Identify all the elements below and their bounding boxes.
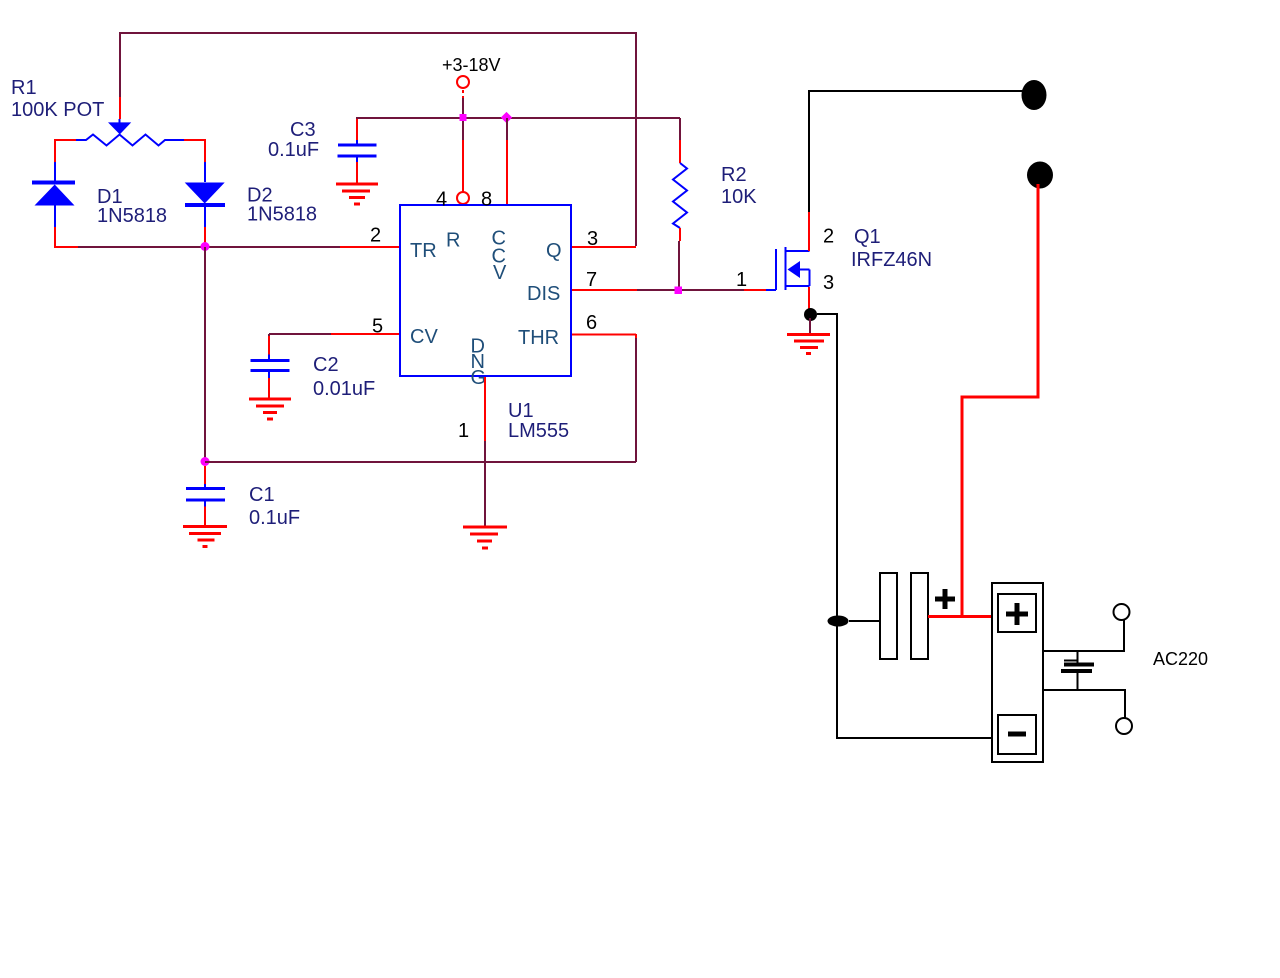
wire THR vertical	[635, 334, 637, 338]
wire drain black up	[809, 91, 1023, 212]
wire pin7 DIS	[572, 289, 637, 291]
svg-text:1: 1	[736, 269, 747, 291]
battery plate left	[880, 573, 897, 659]
svg-text:Q1: Q1	[854, 226, 881, 248]
wire pin1 GND	[484, 377, 486, 441]
wire source to ground	[809, 318, 811, 334]
wire D2 bottom	[204, 206, 206, 227]
svg-text:7: 7	[586, 269, 597, 291]
capacitor C2	[251, 334, 290, 398]
wire pin3 Q	[572, 246, 636, 248]
wire gate	[744, 289, 766, 291]
svg-text:1N5818: 1N5818	[247, 204, 317, 226]
svg-text:CV: CV	[410, 326, 438, 348]
svg-text:3: 3	[823, 272, 834, 294]
svg-text:0.01uF: 0.01uF	[313, 378, 375, 400]
wire top bus from wiper to Q output	[120, 33, 636, 246]
resistor R2 zigzag	[673, 163, 687, 228]
capacitor AC line	[1061, 651, 1094, 689]
svg-text:1: 1	[458, 420, 469, 442]
svg-text:C1: C1	[249, 484, 275, 506]
svg-text:0.1uF: 0.1uF	[249, 507, 300, 529]
IC U1 LM555 body	[400, 205, 571, 376]
wire supply dashes	[462, 90, 464, 98]
node source dot	[804, 308, 817, 321]
wire source red	[808, 287, 810, 309]
resistor R1 zigzag	[76, 135, 184, 146]
svg-text:U1: U1	[508, 400, 534, 422]
node junction battery wire	[828, 616, 849, 627]
svg-text:R1: R1	[11, 77, 37, 99]
svg-text:Q: Q	[546, 240, 562, 262]
diode D2	[185, 183, 225, 206]
svg-text:IRFZ46N: IRFZ46N	[851, 249, 932, 271]
wire source black right/down	[817, 314, 991, 738]
wire R2 bottom	[679, 228, 681, 241]
wire pin2 rail	[54, 246, 78, 248]
battery plate right	[911, 573, 928, 659]
transformer plus terminal box	[998, 594, 1036, 632]
output terminal dot top	[1022, 80, 1047, 110]
svg-text:+3-18V: +3-18V	[442, 55, 501, 75]
wire AC top	[1043, 620, 1124, 651]
diode D1	[32, 183, 75, 206]
wire AC bottom	[1042, 690, 1125, 718]
node junction gate/R2	[675, 287, 683, 295]
svg-text:R2: R2	[721, 164, 747, 186]
svg-text:10K: 10K	[721, 186, 757, 208]
wire D1 top	[54, 139, 56, 162]
wire R1 left lead	[54, 139, 76, 141]
svg-text:DIS: DIS	[527, 283, 560, 305]
capacitor C1	[186, 466, 225, 526]
svg-text:5: 5	[372, 316, 383, 338]
wire supply to bus	[462, 98, 464, 140]
wire left vertical rail	[204, 247, 206, 462]
node junction C1/rail	[201, 457, 210, 466]
wire pin4	[462, 140, 464, 192]
wire R2 top drop	[679, 118, 681, 140]
potentiometer R1 arrow	[119, 119, 121, 123]
transformer minus terminal box	[998, 715, 1036, 754]
ground below C3	[336, 184, 378, 204]
svg-text:2: 2	[823, 226, 834, 248]
node junction supply/bus	[460, 114, 467, 121]
svg-text:AC220: AC220	[1153, 649, 1208, 669]
transformer outer box	[992, 583, 1043, 762]
svg-text:100K POT: 100K POT	[11, 99, 104, 121]
wire D2 top	[204, 139, 206, 162]
wire to battery plate	[849, 620, 880, 622]
wire wiper red segment	[119, 97, 121, 119]
plus sign battery	[935, 589, 955, 609]
supply terminal circle	[457, 76, 469, 88]
ground below pin1	[463, 527, 507, 548]
svg-text:THR: THR	[518, 327, 559, 349]
svg-text:4: 4	[436, 189, 447, 211]
AC terminal top circle	[1114, 604, 1130, 620]
node junction pin8/bus	[501, 112, 512, 123]
wire bottom rail	[205, 461, 636, 463]
svg-text:R: R	[446, 230, 460, 252]
svg-text:TR: TR	[410, 240, 437, 262]
svg-text:1N5818: 1N5818	[97, 205, 167, 227]
svg-text:2: 2	[370, 225, 381, 247]
transistor Q1 IRFZ46N	[766, 247, 810, 290]
svg-text:G: G	[471, 367, 487, 389]
wire drain red	[808, 212, 810, 251]
wire pin8	[506, 118, 508, 140]
wire Vcc bus	[356, 117, 680, 119]
pin name GND vertical	[471, 336, 487, 390]
wire R1 right lead	[184, 139, 206, 141]
node junction D2/rail	[201, 242, 210, 251]
ground below Q1	[787, 335, 830, 354]
svg-text:8: 8	[481, 189, 492, 211]
svg-text:LM555: LM555	[508, 420, 569, 442]
AC terminal bottom circle	[1116, 718, 1132, 734]
svg-text:6: 6	[586, 312, 597, 334]
wire pin6 THR	[572, 334, 636, 336]
capacitor C3	[338, 118, 377, 184]
svg-text:V: V	[493, 262, 507, 284]
wire big red feed	[962, 184, 1038, 615]
pin name VCC vertical	[492, 228, 508, 285]
svg-text:C2: C2	[313, 354, 339, 376]
ground below C1	[183, 527, 227, 547]
svg-text:0.1uF: 0.1uF	[268, 139, 319, 161]
pin4 circle	[457, 192, 469, 204]
wire CV pin5	[269, 333, 331, 335]
svg-text:C3: C3	[290, 119, 316, 141]
wire D1 bottom	[54, 205, 56, 227]
output terminal dot lower	[1027, 162, 1053, 189]
ground below C2	[249, 399, 291, 419]
